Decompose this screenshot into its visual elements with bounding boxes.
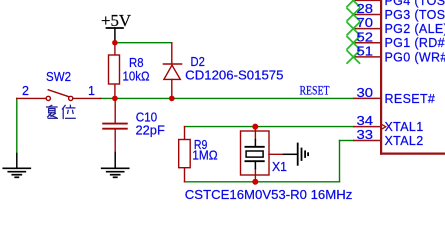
svg-text:CD1206-S01575: CD1206-S01575	[185, 67, 283, 82]
svg-text:RESET#: RESET#	[385, 92, 436, 106]
svg-text:PG1 (RD#): PG1 (RD#)	[385, 36, 445, 50]
svg-text:70: 70	[357, 15, 374, 30]
svg-text:28: 28	[357, 1, 374, 16]
svg-text:PG2 (ALE): PG2 (ALE)	[385, 22, 445, 36]
svg-text:52: 52	[357, 29, 374, 44]
svg-text:RESET: RESET	[300, 82, 330, 97]
svg-text:1: 1	[88, 84, 95, 98]
svg-text:10kΩ: 10kΩ	[123, 68, 150, 83]
svg-text:XTAL1: XTAL1	[385, 120, 424, 134]
svg-text:33: 33	[357, 127, 374, 142]
svg-text:22pF: 22pF	[136, 123, 165, 138]
svg-text:30: 30	[357, 85, 374, 100]
svg-text:SW2: SW2	[46, 69, 71, 84]
svg-text:PG3 (TOSC2): PG3 (TOSC2)	[385, 8, 445, 22]
svg-text:1MΩ: 1MΩ	[192, 148, 218, 163]
svg-text:34: 34	[357, 113, 374, 128]
svg-text:+5V: +5V	[101, 11, 132, 30]
svg-text:XTAL2: XTAL2	[385, 134, 424, 148]
svg-text:51: 51	[357, 44, 374, 59]
svg-text:PG4 (TOSC1): PG4 (TOSC1)	[385, 0, 445, 8]
svg-text:CSTCE16M0V53-R0 16MHz: CSTCE16M0V53-R0 16MHz	[185, 187, 352, 202]
svg-text:2: 2	[22, 84, 29, 98]
svg-text:X1: X1	[272, 159, 287, 174]
svg-text:PG0 (WR#): PG0 (WR#)	[385, 50, 445, 64]
